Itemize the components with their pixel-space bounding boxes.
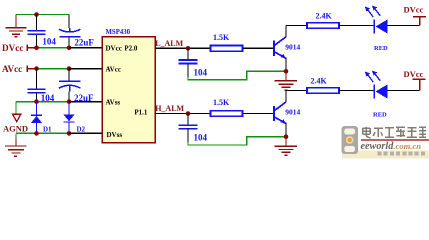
svg-text:L_ALM: L_ALM [155,39,183,48]
svg-text:AVcc: AVcc [2,64,22,74]
port DVcc row2 [413,79,426,90]
svg-text:DVcc: DVcc [2,43,23,53]
IC U1 MSP430 body [102,37,155,143]
svg-text:9014: 9014 [285,108,300,117]
svg-text:22uF: 22uF [74,38,94,48]
wire Q1 emitter down [285,58,287,72]
svg-text:RED: RED [374,45,388,52]
svg-text:H_ALM: H_ALM [155,104,184,113]
svg-text:1.5K: 1.5K [213,98,230,107]
wire to chip AVcc pin [69,68,102,70]
svg-text:D2: D2 [77,125,86,133]
wire AGND rail [16,101,69,103]
wire Q2 collector up [285,91,287,103]
node junction DVcc-C1 [34,46,39,51]
ground earth top-left [6,15,27,37]
LED D3 RED [373,20,375,34]
port AGND [13,114,21,121]
wire LED1 to DVcc [387,25,419,27]
svg-text:D1: D1 [43,125,52,133]
transistor Q2 9014 [274,102,286,124]
svg-text:2.4K: 2.4K [316,12,333,21]
diode D1 [31,102,42,134]
wire collector rail row1 [286,25,307,27]
resistor R4 2.4K [307,88,339,94]
svg-text:DVss: DVss [107,131,123,139]
svg-text:DVcc: DVcc [106,45,122,53]
ground at Q1 emitter [275,71,298,90]
svg-text:RED: RED [373,112,387,119]
svg-text:DVcc: DVcc [404,5,424,15]
wire LED2 to DVcc [387,90,419,92]
capacitor 104 (top row) [36,15,38,48]
resistor R2 1.5K [211,111,243,117]
wire AVcc rail [37,68,70,70]
resistor R1 1.5K [211,46,243,52]
svg-text:9014: 9014 [285,43,300,52]
svg-text:1.5K: 1.5K [213,33,230,42]
LED D4 RED [373,85,375,99]
svg-text:AVss: AVss [106,98,121,106]
svg-text:104: 104 [42,36,56,46]
watermark chinese title [363,127,427,138]
capacitor C5 104 [187,48,189,59]
wire top DVcc-ground rail [16,14,69,16]
wire cap to Q1 emitter (stepped) [188,71,286,79]
wire collector rail row2 [286,90,307,92]
wire bottom DGND rail [16,132,69,134]
wire to LED1 [339,25,374,27]
ground earth bottom-left [5,139,27,156]
capacitor 104 (mid row) [36,69,38,102]
watermark red underline [361,139,429,141]
wire down to earth [15,133,17,139]
wire resistor to Q2 base [243,113,273,115]
wire P2.0 to resistor [155,47,211,49]
svg-text:104: 104 [194,133,208,143]
wire P1.1 to resistor [155,113,211,115]
wire cap to Q2 emitter (stepped) [188,137,286,145]
svg-text:P1.1: P1.1 [134,109,148,117]
port DVcc row1 [413,17,426,26]
svg-text:eeworld.com.cn: eeworld.com.cn [361,141,422,152]
svg-text:P2.0: P2.0 [124,45,138,53]
capacitor 22uF (top row, polarized) [68,15,70,48]
wire resistor to Q1 base [243,47,273,49]
wire to chip DVss pin [69,132,102,134]
ground at Q2 emitter [275,137,298,156]
wire DVcc rail [37,47,70,49]
node junction top [34,12,39,17]
capacitor 22uF (mid row, polarized) [68,69,70,102]
svg-text:AGND: AGND [3,123,28,133]
resistor R3 2.4K [307,23,339,29]
svg-text:DVcc: DVcc [404,69,424,79]
wire to chip DVcc pin [69,47,102,49]
svg-text:2.4K: 2.4K [311,76,328,85]
svg-text:MSP430: MSP430 [106,29,131,36]
transistor Q1 9014 [274,37,286,59]
wire to LED2 [339,90,374,92]
wire cap lead lower [187,129,189,143]
wire to chip AVss pin [69,101,102,103]
svg-text:104: 104 [194,67,208,77]
node junction DVcc-C2 [67,46,72,51]
wire Q2 emitter down [285,123,287,137]
watermark slogan [378,152,425,156]
wire down to AGND port [15,102,17,114]
capacitor C6 104 [187,114,189,125]
watermark eeworld logo [342,126,429,159]
svg-text:AVcc: AVcc [106,65,121,73]
diode D2 [63,102,74,134]
wire cap lead lower [187,63,189,77]
wire Q1 collector up [285,26,287,38]
